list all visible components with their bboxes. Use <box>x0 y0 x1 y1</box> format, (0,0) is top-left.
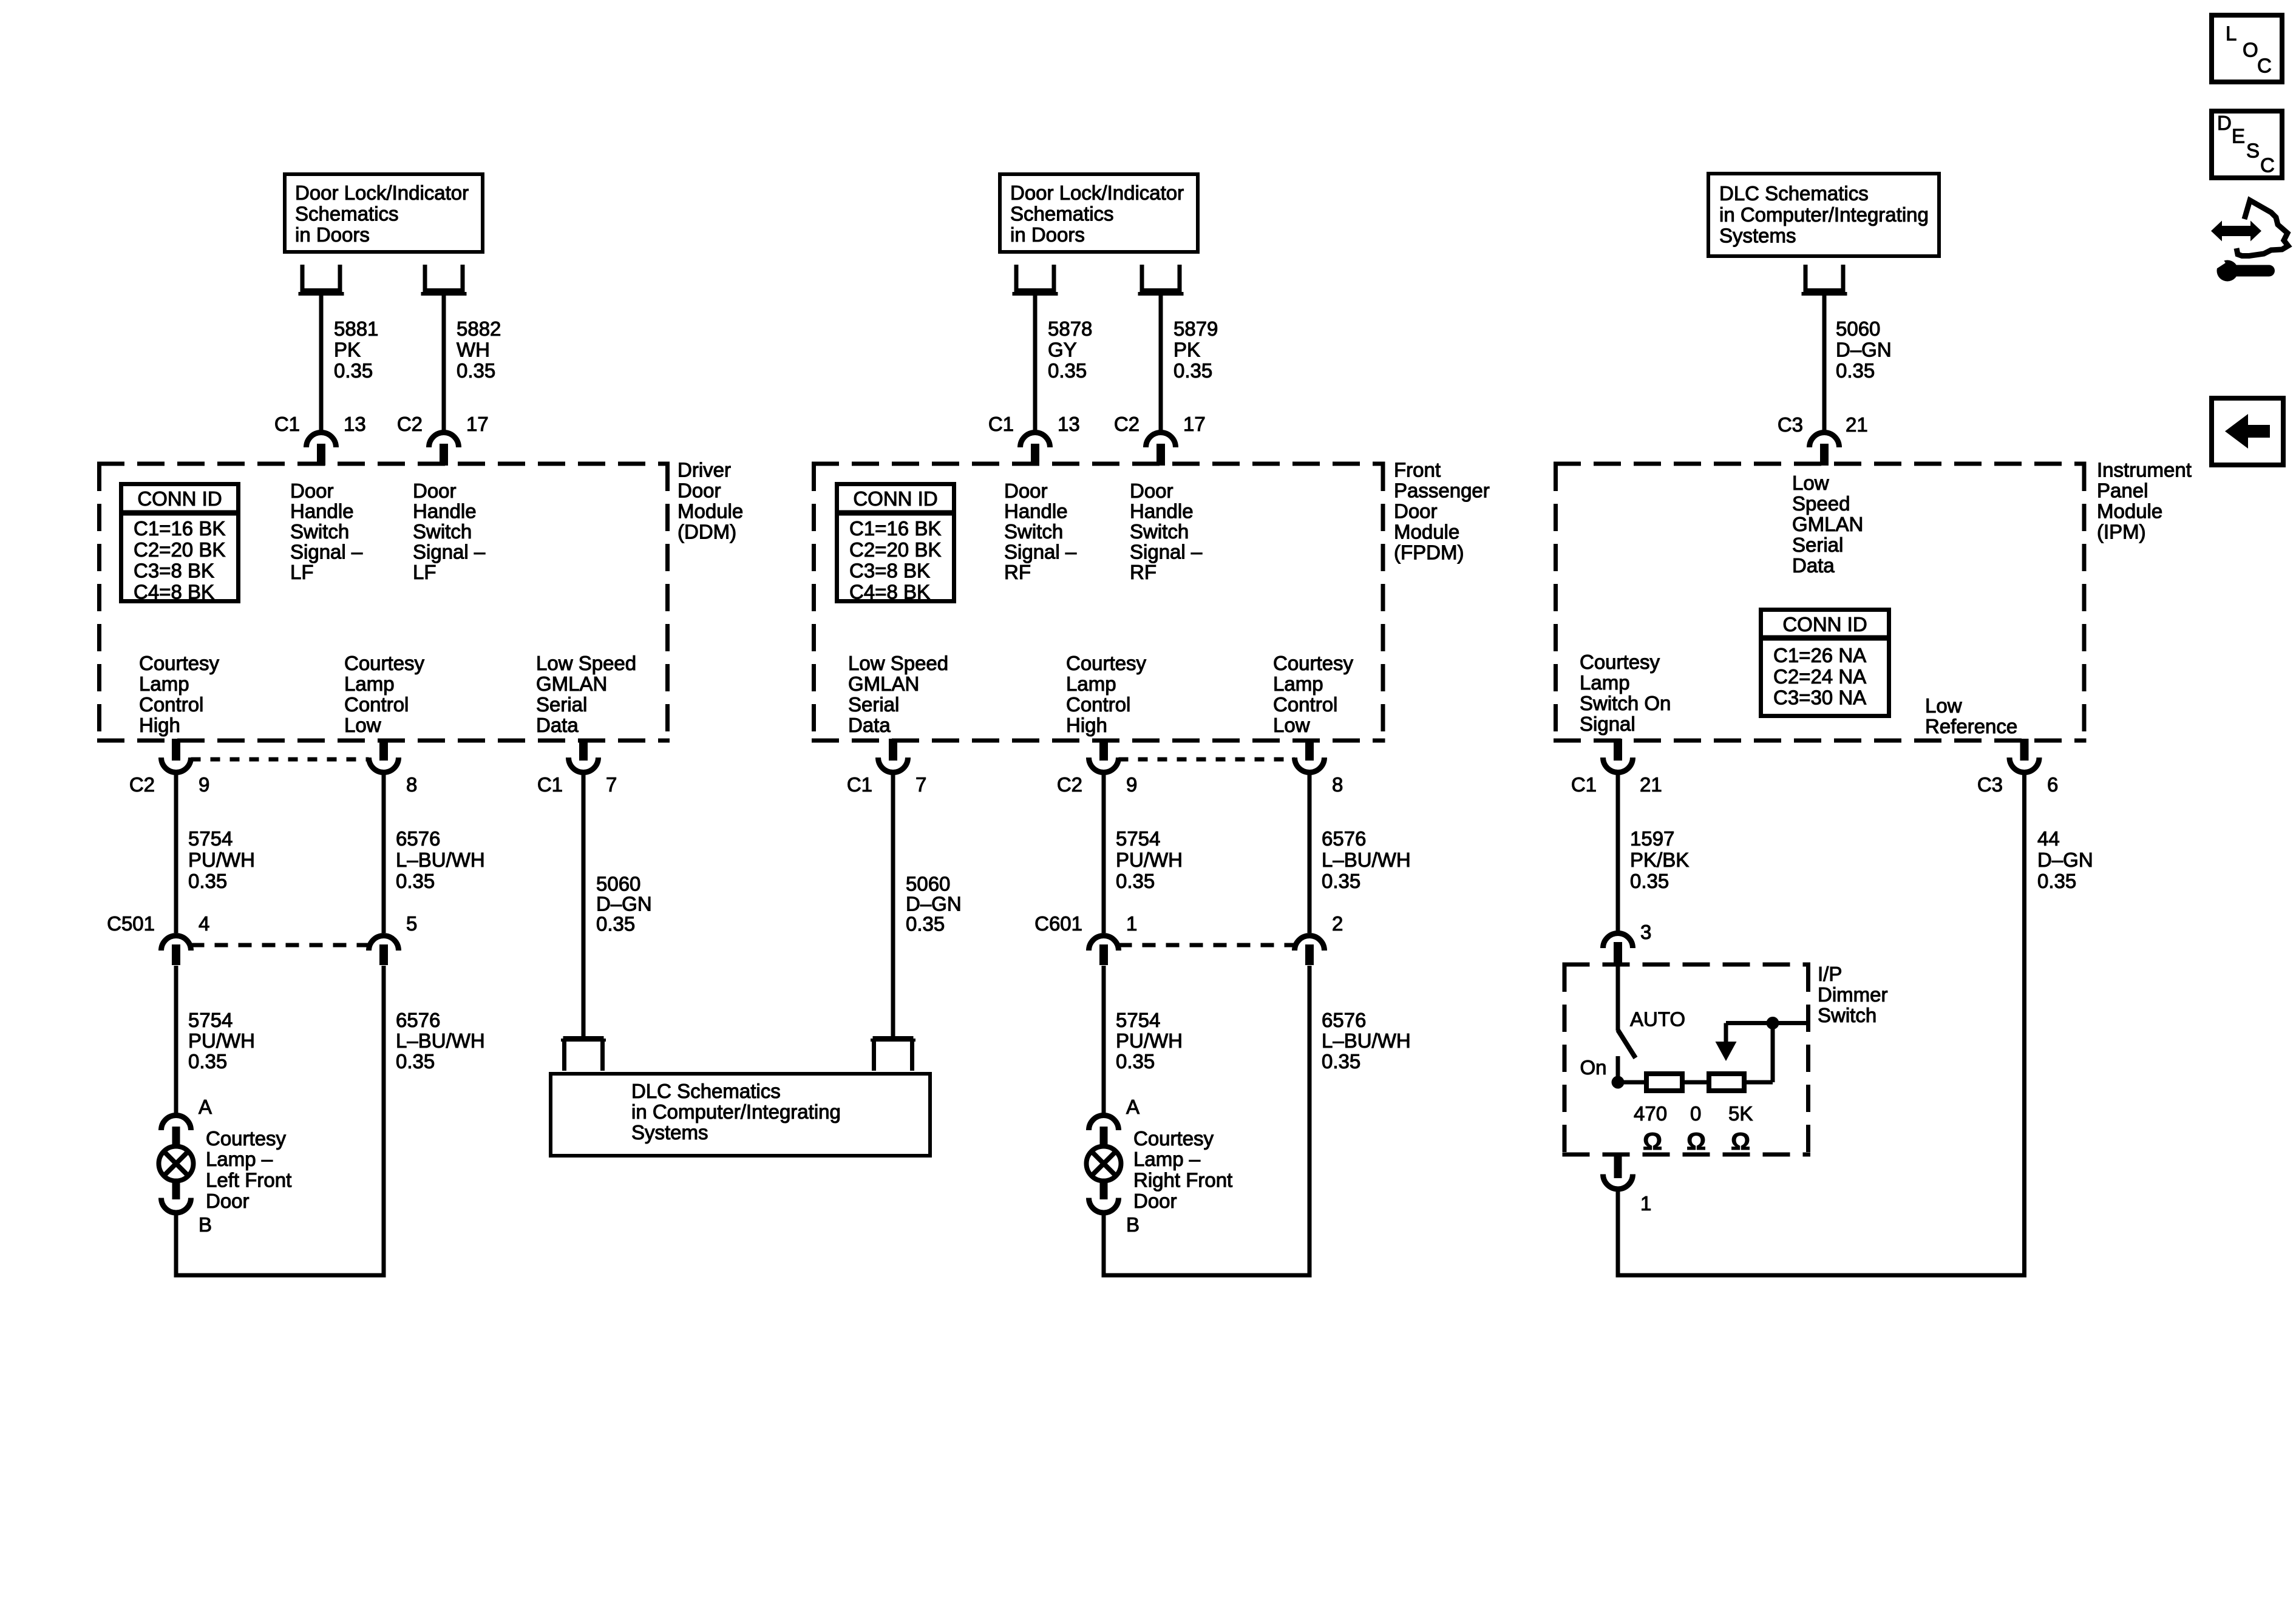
connector C1 pin 7 out of DDM <box>579 739 588 761</box>
svg-text:6576: 6576 <box>1322 1009 1366 1031</box>
svg-text:Signal: Signal <box>1580 713 1635 735</box>
icon box LOC <box>2212 15 2282 82</box>
svg-text:Data: Data <box>848 714 891 736</box>
junction dot at On node <box>1612 1076 1625 1089</box>
svg-text:Systems: Systems <box>1719 225 1796 247</box>
svg-text:5060: 5060 <box>906 873 950 895</box>
potentiometer wiper arrow <box>1724 1023 1728 1042</box>
svg-text:Switch: Switch <box>1004 520 1063 543</box>
connector bracket under top-right box (wire 5060) <box>1804 265 1808 291</box>
svg-text:Module: Module <box>2097 500 2162 523</box>
wire 6576 L-BU/WH (C601-2 to loop) <box>1308 966 1312 1278</box>
svg-text:C3: C3 <box>1778 413 1803 436</box>
svg-text:Door: Door <box>206 1190 250 1212</box>
svg-text:PK: PK <box>334 339 361 361</box>
box: DLC Schematics in Computer/Integrating Systems (bottom) <box>551 1074 930 1156</box>
svg-text:Schematics: Schematics <box>1010 203 1114 225</box>
svg-text:470: 470 <box>1634 1102 1667 1125</box>
connector bracket above DLC box (right) <box>873 1036 914 1040</box>
wire 44 D-GN (IPM pin 6 to loop) <box>2022 774 2026 1278</box>
connector pin B (left lamp) <box>161 1198 191 1213</box>
svg-text:5882: 5882 <box>457 317 501 340</box>
wire 5878 GY 0.35 (vertical) <box>1033 295 1038 431</box>
svg-text:6576: 6576 <box>396 827 440 850</box>
connector pin B (right lamp) <box>1089 1198 1119 1213</box>
svg-text:0.35: 0.35 <box>596 913 635 935</box>
wire 5060 D-GN (FPDM pin 7 to DLC box) <box>891 774 895 1036</box>
wire 5881 PK 0.35 (vertical) <box>319 295 324 431</box>
connector C1 pin 7 out of FPDM <box>889 739 897 761</box>
resistor 470 ohm <box>1646 1074 1682 1091</box>
wire 6576 L-BU/WH (FPDM pin 8 to C601-2) <box>1308 774 1312 933</box>
svg-text:Signal –: Signal – <box>1004 541 1077 563</box>
svg-text:O: O <box>2243 39 2258 61</box>
svg-text:in Computer/Integrating: in Computer/Integrating <box>631 1100 841 1123</box>
svg-text:Control: Control <box>1273 693 1337 716</box>
svg-text:C501: C501 <box>107 912 155 935</box>
svg-text:Courtesy: Courtesy <box>1133 1127 1214 1150</box>
connector C2 pin 17 into DDM <box>429 433 459 448</box>
connector C3 pin 21 into IPM <box>1810 433 1839 448</box>
svg-text:C2: C2 <box>397 413 423 435</box>
connector bracket under left box (wire 5882) <box>423 265 427 291</box>
svg-text:C1: C1 <box>988 413 1014 435</box>
svg-text:5878: 5878 <box>1048 317 1092 340</box>
svg-text:Low Speed: Low Speed <box>848 652 948 674</box>
svg-text:0.35: 0.35 <box>1836 359 1875 382</box>
connector pin A (left lamp) <box>161 1116 191 1131</box>
in-line connector C601 pin 2 <box>1295 936 1325 951</box>
svg-text:0.35: 0.35 <box>188 1050 227 1073</box>
svg-text:D–GN: D–GN <box>906 893 962 915</box>
svg-text:Door: Door <box>290 480 334 502</box>
icon: wrench <box>2217 260 2238 282</box>
svg-text:C2=20 BK: C2=20 BK <box>849 538 941 561</box>
svg-text:Courtesy: Courtesy <box>344 652 425 674</box>
svg-text:Speed: Speed <box>1792 492 1850 515</box>
CONN ID table (IPM) <box>1761 610 1889 716</box>
svg-text:9: 9 <box>1126 773 1137 796</box>
svg-text:1: 1 <box>1126 912 1137 935</box>
svg-text:Door: Door <box>1133 1190 1177 1212</box>
svg-text:in Computer/Integrating: in Computer/Integrating <box>1719 203 1929 226</box>
resistor 5K potentiometer body <box>1709 1074 1744 1091</box>
svg-text:5: 5 <box>406 912 417 935</box>
svg-text:C1: C1 <box>274 413 300 435</box>
svg-text:C1: C1 <box>847 773 872 796</box>
svg-text:CONN ID: CONN ID <box>853 487 937 510</box>
svg-text:0.35: 0.35 <box>1630 870 1669 892</box>
svg-text:C1=16 BK: C1=16 BK <box>134 517 225 540</box>
wire riser to wiper line <box>1771 1023 1775 1083</box>
svg-text:Serial: Serial <box>536 693 587 716</box>
svg-text:Lamp: Lamp <box>139 673 189 695</box>
CONN ID table (DDM) <box>121 484 239 602</box>
svg-text:7: 7 <box>915 773 926 796</box>
svg-text:S: S <box>2246 140 2260 162</box>
svg-text:Left Front: Left Front <box>206 1169 291 1192</box>
wire bottom loop (left lamp return) <box>174 1273 386 1278</box>
connector C2 pin 9 out of FPDM <box>1099 739 1108 761</box>
svg-text:Instrument: Instrument <box>2097 459 2192 481</box>
svg-text:Dimmer: Dimmer <box>1818 983 1887 1006</box>
svg-text:0.35: 0.35 <box>1173 359 1212 382</box>
svg-text:5060: 5060 <box>1836 317 1880 340</box>
connector bracket above DLC box (left) <box>563 1036 604 1040</box>
svg-text:C1: C1 <box>1571 773 1597 796</box>
svg-text:On: On <box>1580 1056 1606 1079</box>
wire 5754 PU/WH (C601-1 to lamp A) <box>1102 966 1106 1114</box>
svg-text:Ω: Ω <box>1686 1128 1706 1155</box>
svg-text:PU/WH: PU/WH <box>1116 1029 1183 1052</box>
svg-text:B: B <box>199 1213 212 1236</box>
svg-text:CONN ID: CONN ID <box>1782 613 1867 636</box>
svg-text:C: C <box>2257 55 2272 77</box>
svg-text:RF: RF <box>1130 561 1156 583</box>
svg-text:Lamp: Lamp <box>1273 673 1323 695</box>
svg-text:C2: C2 <box>1057 773 1082 796</box>
svg-text:0.35: 0.35 <box>457 359 495 382</box>
svg-text:Door: Door <box>1004 480 1048 502</box>
svg-text:Switch: Switch <box>1818 1004 1877 1026</box>
switch blade (AUTO position) <box>1618 1030 1635 1058</box>
svg-text:Low Speed: Low Speed <box>536 652 636 674</box>
svg-text:5754: 5754 <box>188 1009 233 1031</box>
module box: Instrument Panel Module (IPM), dashed <box>1554 462 2087 466</box>
svg-text:Handle: Handle <box>290 500 354 523</box>
svg-text:High: High <box>1066 714 1107 736</box>
svg-text:A: A <box>1126 1096 1140 1118</box>
svg-text:0: 0 <box>1690 1102 1701 1125</box>
svg-text:Lamp: Lamp <box>1580 671 1630 694</box>
svg-text:E: E <box>2232 125 2245 147</box>
svg-text:GY: GY <box>1048 339 1077 361</box>
svg-text:Control: Control <box>139 693 203 716</box>
svg-text:Signal –: Signal – <box>1130 541 1203 563</box>
svg-text:Data: Data <box>1792 554 1835 577</box>
icon: double-headed arrow <box>2211 221 2261 242</box>
svg-text:Courtesy: Courtesy <box>1580 651 1660 673</box>
svg-text:C2=24 NA: C2=24 NA <box>1773 665 1866 688</box>
svg-text:Courtesy: Courtesy <box>1273 652 1354 674</box>
svg-text:(DDM): (DDM) <box>678 521 736 543</box>
svg-text:PK: PK <box>1173 339 1200 361</box>
svg-text:D–GN: D–GN <box>1836 339 1892 361</box>
icon: component outline <box>2237 200 2288 256</box>
svg-text:L–BU/WH: L–BU/WH <box>396 1029 485 1052</box>
svg-text:Right Front: Right Front <box>1133 1169 1232 1192</box>
svg-text:C2: C2 <box>1114 413 1140 435</box>
svg-text:Lamp: Lamp <box>344 673 395 695</box>
svg-text:Serial: Serial <box>1792 534 1843 556</box>
svg-text:Door Lock/Indicator: Door Lock/Indicator <box>295 181 469 204</box>
svg-text:AUTO: AUTO <box>1630 1008 1685 1031</box>
svg-text:B: B <box>1126 1213 1140 1236</box>
svg-text:3: 3 <box>1640 921 1651 943</box>
svg-text:C3: C3 <box>1977 773 2003 796</box>
svg-text:21: 21 <box>1846 413 1868 436</box>
svg-text:1: 1 <box>1640 1192 1651 1215</box>
svg-text:RF: RF <box>1004 561 1031 583</box>
svg-text:High: High <box>139 714 180 736</box>
wire from lamp B down (left) <box>174 1215 178 1278</box>
svg-text:1597: 1597 <box>1630 827 1674 850</box>
svg-text:C4=8 BK: C4=8 BK <box>134 580 214 603</box>
svg-text:Module: Module <box>678 500 743 523</box>
svg-text:Switch On: Switch On <box>1580 692 1671 714</box>
svg-text:Low: Low <box>344 714 381 736</box>
wire bottom loop (right lamp return) <box>1102 1273 1312 1278</box>
in-line connector pin 3 (dimmer switch) <box>1603 934 1632 949</box>
connector group dashed line C501 pins 4-5 <box>191 943 369 947</box>
wire between resistors <box>1685 1080 1708 1085</box>
svg-text:9: 9 <box>199 773 209 796</box>
svg-text:13: 13 <box>344 413 366 435</box>
svg-text:C1=16 BK: C1=16 BK <box>849 517 941 540</box>
svg-text:Front: Front <box>1394 459 1441 481</box>
svg-text:A: A <box>199 1096 212 1118</box>
svg-text:C4=8 BK: C4=8 BK <box>849 580 930 603</box>
svg-text:Low: Low <box>1925 694 1962 717</box>
svg-text:5879: 5879 <box>1173 317 1218 340</box>
svg-text:Switch: Switch <box>1130 520 1189 543</box>
wire dimmer pin 1 down <box>1616 1191 1620 1278</box>
wire bottom loop (dimmer return) <box>1616 1273 2027 1278</box>
svg-text:2: 2 <box>1332 912 1343 935</box>
svg-text:in Doors: in Doors <box>295 223 370 246</box>
svg-text:D–GN: D–GN <box>2037 849 2093 871</box>
svg-text:17: 17 <box>1183 413 1206 435</box>
svg-text:Signal –: Signal – <box>413 541 486 563</box>
junction dot at wiper line <box>1767 1017 1779 1029</box>
svg-text:Low: Low <box>1273 714 1310 736</box>
connector bracket under left box (wire 5881) <box>301 265 305 291</box>
wire 5882 WH 0.35 (vertical) <box>442 295 446 431</box>
connector C2 pin 17 into FPDM <box>1146 433 1176 448</box>
box: Door Lock/Indicator Schematics in Doors (left) <box>285 174 483 252</box>
svg-text:Ω: Ω <box>1731 1128 1750 1155</box>
svg-text:Control: Control <box>1066 693 1130 716</box>
connector C2 pin 9 out of DDM <box>172 739 180 761</box>
wire 5754 PU/WH (FPDM pin 9 to C601-1) <box>1102 774 1106 933</box>
wire 5879 PK 0.35 (vertical) <box>1159 295 1163 431</box>
svg-text:C2=20 BK: C2=20 BK <box>134 538 225 561</box>
connector pin 1 (dimmer switch bottom) <box>1614 1153 1622 1178</box>
svg-text:0.35: 0.35 <box>2037 870 2076 892</box>
svg-text:LF: LF <box>413 561 436 583</box>
svg-text:0.35: 0.35 <box>1116 870 1155 892</box>
svg-text:Systems: Systems <box>631 1121 708 1144</box>
svg-text:Handle: Handle <box>1130 500 1194 523</box>
svg-text:GMLAN: GMLAN <box>536 673 607 695</box>
box: Door Lock/Indicator Schematics in Doors (middle) <box>1000 174 1198 252</box>
svg-text:0.35: 0.35 <box>1116 1050 1155 1073</box>
module box: Front Passenger Door Module (FPDM), dashed <box>812 462 1385 466</box>
module box: Driver Door Module (DDM), dashed <box>97 462 670 466</box>
svg-text:Data: Data <box>536 714 579 736</box>
svg-text:C1: C1 <box>537 773 563 796</box>
svg-text:WH: WH <box>457 339 490 361</box>
svg-text:L–BU/WH: L–BU/WH <box>1322 1029 1411 1052</box>
icon box DESC <box>2212 111 2282 178</box>
svg-text:Schematics: Schematics <box>295 203 399 225</box>
svg-text:17: 17 <box>466 413 489 435</box>
svg-text:6576: 6576 <box>1322 827 1366 850</box>
svg-text:Ω: Ω <box>1643 1128 1662 1155</box>
connector pin A (right lamp) <box>1089 1116 1119 1131</box>
wire 1597 PK/BK (IPM pin 21 to conn 3) <box>1616 774 1620 933</box>
svg-text:Door: Door <box>1130 480 1173 502</box>
in-line connector C501 pin 5 <box>369 936 399 951</box>
svg-text:Door: Door <box>678 480 721 502</box>
svg-text:44: 44 <box>2037 827 2060 850</box>
connector pin 8 out of DDM <box>379 739 388 761</box>
svg-text:CONN ID: CONN ID <box>137 487 222 510</box>
svg-text:0.35: 0.35 <box>1322 1050 1360 1073</box>
svg-text:GMLAN: GMLAN <box>1792 513 1863 535</box>
svg-text:5060: 5060 <box>596 873 640 895</box>
switch box: I/P Dimmer Switch, dashed <box>1563 963 1811 967</box>
lamp: Courtesy Lamp - Right Front Door <box>1087 1147 1121 1181</box>
svg-text:Courtesy: Courtesy <box>206 1127 287 1150</box>
wire On contact <box>1616 1056 1620 1085</box>
svg-text:8: 8 <box>1332 773 1343 796</box>
wire 5060 D-GN 0.35 (vertical, IPM) <box>1822 295 1827 431</box>
svg-text:5754: 5754 <box>1116 827 1160 850</box>
svg-text:Lamp –: Lamp – <box>1133 1148 1201 1170</box>
svg-text:PU/WH: PU/WH <box>188 849 255 871</box>
wire 6576 L-BU/WH (DDM pin 8 to C501-5) <box>382 774 386 933</box>
svg-text:(FPDM): (FPDM) <box>1394 541 1464 564</box>
svg-text:0.35: 0.35 <box>906 913 945 935</box>
wire 6576 L-BU/WH (C501-5 to loop) <box>382 966 386 1278</box>
svg-text:6576: 6576 <box>396 1009 440 1031</box>
svg-text:5754: 5754 <box>1116 1009 1160 1031</box>
svg-text:LF: LF <box>290 561 314 583</box>
svg-text:Handle: Handle <box>413 500 477 523</box>
svg-text:4: 4 <box>199 912 209 935</box>
svg-text:PK/BK: PK/BK <box>1630 849 1689 871</box>
svg-text:DLC Schematics: DLC Schematics <box>631 1080 781 1102</box>
icon box back-arrow <box>2212 398 2283 465</box>
svg-text:C3=8 BK: C3=8 BK <box>849 560 930 582</box>
svg-text:L–BU/WH: L–BU/WH <box>1322 849 1411 871</box>
svg-text:Serial: Serial <box>848 693 899 716</box>
connector pin 8 out of FPDM <box>1305 739 1314 761</box>
svg-text:C3=30 NA: C3=30 NA <box>1773 686 1866 709</box>
svg-text:Handle: Handle <box>1004 500 1068 523</box>
svg-text:C2: C2 <box>129 773 155 796</box>
svg-text:Lamp: Lamp <box>1066 673 1116 695</box>
svg-text:PU/WH: PU/WH <box>188 1029 255 1052</box>
svg-text:Driver: Driver <box>678 459 731 481</box>
wire 5754 PU/WH (DDM pin 9 to C501-4) <box>174 774 178 933</box>
svg-text:D–GN: D–GN <box>596 893 652 915</box>
svg-text:D: D <box>2217 112 2232 134</box>
svg-text:I/P: I/P <box>1818 963 1842 985</box>
svg-text:Courtesy: Courtesy <box>139 652 220 674</box>
svg-text:5754: 5754 <box>188 827 233 850</box>
svg-text:C1=26 NA: C1=26 NA <box>1773 644 1866 666</box>
svg-text:13: 13 <box>1058 413 1080 435</box>
svg-text:21: 21 <box>1640 773 1662 796</box>
svg-text:Low: Low <box>1792 472 1829 494</box>
svg-text:in Doors: in Doors <box>1010 223 1085 246</box>
svg-text:Control: Control <box>344 693 409 716</box>
in-line connector C601 pin 1 <box>1089 936 1119 951</box>
lamp: Courtesy Lamp - Left Front Door <box>159 1147 194 1181</box>
svg-text:Reference: Reference <box>1925 715 2017 737</box>
svg-text:C: C <box>2260 154 2275 177</box>
svg-text:5881: 5881 <box>334 317 378 340</box>
svg-text:0.35: 0.35 <box>1322 870 1360 892</box>
wire 5754 PU/WH (C501-4 to lamp A) <box>174 966 178 1114</box>
svg-text:DLC Schematics: DLC Schematics <box>1719 182 1869 205</box>
wire switch common (pin 3 into box) <box>1616 966 1620 1031</box>
svg-text:0.35: 0.35 <box>396 1050 435 1073</box>
svg-text:L–BU/WH: L–BU/WH <box>396 849 485 871</box>
CONN ID table (FPDM) <box>837 484 954 602</box>
svg-text:Switch: Switch <box>413 520 472 543</box>
svg-text:6: 6 <box>2047 773 2058 796</box>
svg-text:L: L <box>2226 22 2237 45</box>
svg-text:Door: Door <box>413 480 457 502</box>
svg-text:GMLAN: GMLAN <box>848 673 919 695</box>
wire from lamp B down (middle) <box>1102 1215 1106 1278</box>
connector group dotted line C2 pins 9-8 (DDM) <box>191 758 369 762</box>
connector C1 pin 13 into DDM <box>307 433 336 448</box>
svg-text:0.35: 0.35 <box>188 870 227 892</box>
svg-text:0.35: 0.35 <box>396 870 435 892</box>
svg-text:Panel: Panel <box>2097 480 2148 502</box>
svg-text:Passenger: Passenger <box>1394 480 1490 502</box>
svg-text:5K: 5K <box>1728 1102 1753 1125</box>
svg-text:0.35: 0.35 <box>334 359 373 382</box>
svg-text:Courtesy: Courtesy <box>1066 652 1147 674</box>
svg-text:Door Lock/Indicator: Door Lock/Indicator <box>1010 181 1184 204</box>
svg-text:Module: Module <box>1394 521 1459 543</box>
svg-text:0.35: 0.35 <box>1048 359 1087 382</box>
connector bracket under middle box (wire 5879) <box>1140 265 1144 291</box>
wire wiper line horizontal <box>1726 1021 1807 1025</box>
connector group dotted line C2 pins 9-8 (FPDM) <box>1119 758 1295 762</box>
connector group dashed line C601 pins 1-2 <box>1119 943 1295 947</box>
box: DLC Schematics in Computer/Integrating Systems (top right) <box>1708 174 1939 256</box>
connector C1 pin 21 out of IPM <box>1614 739 1622 761</box>
svg-text:Switch: Switch <box>290 520 349 543</box>
svg-text:8: 8 <box>406 773 417 796</box>
wire On node to resistor network <box>1618 1080 1645 1085</box>
in-line connector C501 pin 4 <box>161 936 191 951</box>
svg-text:PU/WH: PU/WH <box>1116 849 1183 871</box>
connector C3 pin 6 out of IPM <box>2020 739 2029 761</box>
svg-text:Lamp –: Lamp – <box>206 1148 273 1170</box>
wire resistor output to riser <box>1745 1080 1773 1085</box>
wire 5060 D-GN (DDM pin 7 to DLC box) <box>582 774 586 1036</box>
connector bracket under middle box (wire 5878) <box>1014 265 1019 291</box>
connector C1 pin 13 into FPDM <box>1021 433 1050 448</box>
svg-text:7: 7 <box>606 773 617 796</box>
svg-text:(IPM): (IPM) <box>2097 521 2146 543</box>
svg-text:C601: C601 <box>1034 912 1082 935</box>
svg-text:Signal –: Signal – <box>290 541 363 563</box>
svg-text:Door: Door <box>1394 500 1438 523</box>
svg-text:C3=8 BK: C3=8 BK <box>134 560 214 582</box>
